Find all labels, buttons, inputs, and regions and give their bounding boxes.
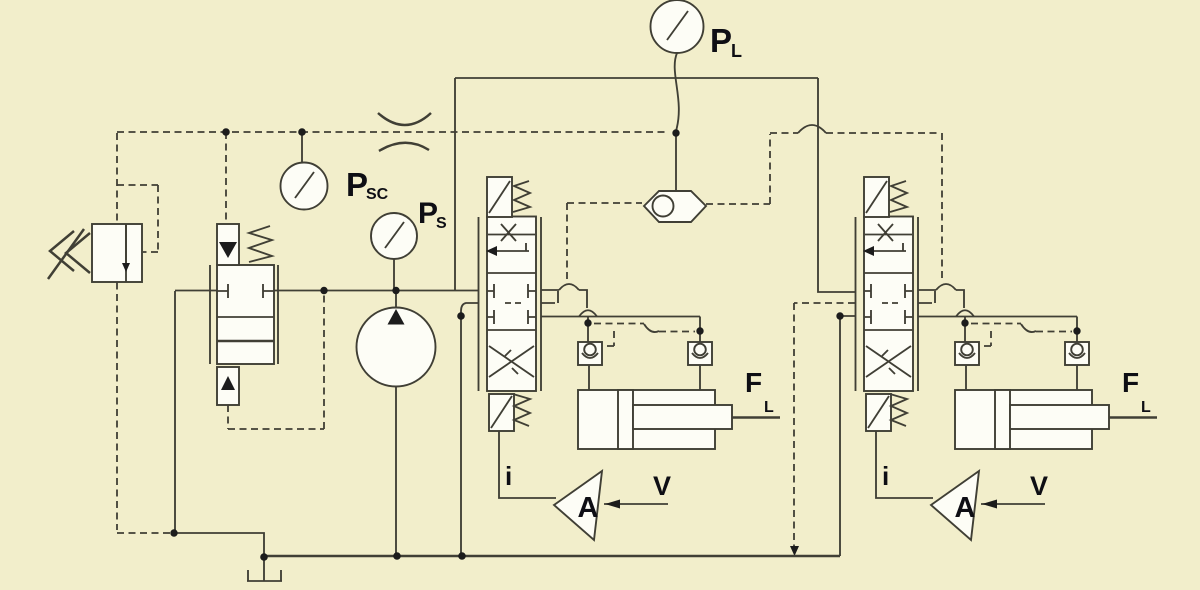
svg-text:L: L xyxy=(731,41,742,61)
svg-text:L: L xyxy=(764,399,774,416)
svg-text:S: S xyxy=(436,215,447,232)
svg-text:P: P xyxy=(710,22,732,59)
svg-text:P: P xyxy=(346,166,368,203)
svg-text:V: V xyxy=(653,471,671,501)
svg-text:i: i xyxy=(505,461,512,491)
svg-text:F: F xyxy=(745,367,762,398)
svg-text:SC: SC xyxy=(366,186,389,203)
svg-text:P: P xyxy=(418,197,438,230)
svg-text:A: A xyxy=(578,492,599,524)
